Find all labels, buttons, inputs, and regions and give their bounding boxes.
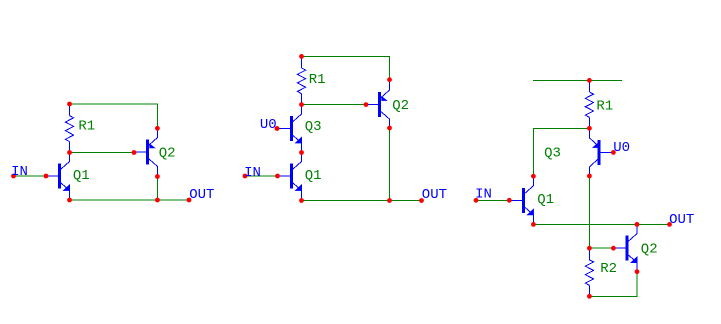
node Q2 base pin (left) xyxy=(132,150,137,155)
svg-text:IN: IN xyxy=(475,187,492,203)
wire Q1 emitter to OUT (right) xyxy=(533,223,669,225)
node power rail center (right) xyxy=(587,78,592,83)
transistor Q2 (right, NPN) xyxy=(614,224,638,271)
wire R1 top to Q2 emitter (middle) xyxy=(302,56,390,79)
svg-text:Q2: Q2 xyxy=(641,241,658,257)
node IN terminal (right) xyxy=(474,198,479,203)
node R1 top (left) xyxy=(67,102,72,107)
transistor Q3 (middle, NPN) xyxy=(278,105,302,153)
node Q2 emitter (left) xyxy=(155,126,160,131)
svg-text:U0: U0 xyxy=(260,117,277,133)
resistor R1 (right) xyxy=(585,80,593,128)
node U0 terminal Q3 base (middle) xyxy=(275,126,280,131)
transistor Q2 (left, PNP) xyxy=(134,128,158,176)
wire Q2 base junction to base pin (right) xyxy=(589,247,613,249)
node rail junction (left) xyxy=(155,198,160,203)
node Q1 base junction (middle) xyxy=(275,174,280,179)
transistor Q3 (right, PNP mirrored) xyxy=(590,128,614,176)
node Q2 collector (middle) xyxy=(387,126,392,131)
svg-text:OUT: OUT xyxy=(189,187,214,203)
svg-text:Q2: Q2 xyxy=(159,146,176,162)
svg-text:Q1: Q1 xyxy=(537,192,554,208)
wire Q2 collector to output rail xyxy=(156,177,158,201)
transistor Q2 (middle, PNP) xyxy=(366,80,390,128)
node IN terminal (middle) xyxy=(243,174,248,179)
wire Q3 collector down to Q2 base junction (right) xyxy=(588,176,590,248)
wire IN to Q1 base junction (middle) xyxy=(245,175,278,177)
node Q1 emitter (left) xyxy=(67,198,72,203)
transistor Q1 (right, NPN) xyxy=(510,176,534,224)
wire R1 bottom / Q3 emitter to Q1 collector (right) xyxy=(533,128,589,176)
node A: R1 bottom / Q1 collector / Q2 base (left) xyxy=(67,150,72,155)
node Q2 base junction / R2 top (right) xyxy=(587,246,592,251)
node Q2 emitter (middle) xyxy=(387,77,392,82)
node OUT terminal (right) xyxy=(667,222,672,227)
svg-text:Q1: Q1 xyxy=(305,168,322,184)
node Q2 base pin (right) xyxy=(611,246,616,251)
wire output rail Q1 emitter to OUT xyxy=(70,199,190,201)
wire output rail Q1 emitter to OUT (middle) xyxy=(302,200,422,202)
wire R2 bottom to Q2 emitter (right) xyxy=(589,272,637,297)
node Q1 base junction (left) xyxy=(44,174,49,179)
wire R1 bottom to Q2 base (middle) xyxy=(302,104,367,106)
svg-text:R1: R1 xyxy=(596,98,613,114)
svg-text:R1: R1 xyxy=(309,72,326,88)
node Q1 emitter (right) xyxy=(531,222,536,227)
svg-text:Q2: Q2 xyxy=(392,98,409,114)
wire R1 top to Q2 emitter xyxy=(70,104,158,128)
transistor Q1 (left, NPN) xyxy=(46,153,70,201)
svg-text:R1: R1 xyxy=(78,119,95,135)
svg-text:Q3: Q3 xyxy=(305,119,322,135)
node R2 bottom (right) xyxy=(587,294,592,299)
node Q3 emitter / Q1 collector (middle) xyxy=(299,150,304,155)
transistor Q1 (middle, NPN) xyxy=(278,153,302,201)
power rail (right) xyxy=(533,79,622,81)
node rail junction (middle) xyxy=(387,198,392,203)
svg-text:OUT: OUT xyxy=(669,212,694,228)
resistor R2 (right) xyxy=(585,248,593,296)
wire node A (Q1 collector/R1 bottom) to Q2 base xyxy=(70,152,135,154)
resistor R1 (middle) xyxy=(297,56,305,104)
svg-text:R2: R2 xyxy=(600,261,617,277)
node Q1 base junction (right) xyxy=(507,198,512,203)
wire IN to Q1 base junction (right) xyxy=(476,199,509,201)
wire IN to Q1 base junction xyxy=(14,175,47,177)
node Q2 collector on OUT wire (right) xyxy=(635,222,640,227)
node R1 bottom / Q3 emitter (right) xyxy=(587,126,592,131)
node Q1 collector (right) xyxy=(531,174,536,179)
svg-text:Q3: Q3 xyxy=(544,145,561,161)
node U0 terminal Q3 base (right) xyxy=(611,150,616,155)
node R1 top (middle) xyxy=(299,54,304,59)
svg-text:Q1: Q1 xyxy=(73,168,90,184)
node Q1 emitter (middle) xyxy=(299,198,304,203)
node Q3 collector (right) xyxy=(587,174,592,179)
svg-text:IN: IN xyxy=(244,165,261,181)
node Q2 collector (left) xyxy=(155,174,160,179)
svg-text:OUT: OUT xyxy=(422,187,447,203)
node Q2 emitter (right) xyxy=(635,269,640,274)
node OUT terminal (left) xyxy=(187,198,192,203)
resistor R1 (left) xyxy=(65,104,73,153)
svg-text:U0: U0 xyxy=(613,140,630,156)
node OUT terminal (middle) xyxy=(419,198,424,203)
svg-text:IN: IN xyxy=(11,164,28,180)
node Q2 base pin (middle) xyxy=(364,102,369,107)
node IN terminal (left) xyxy=(11,174,16,179)
node R1 bottom / Q3 collector (middle) xyxy=(299,102,304,107)
wire Q2 collector down to output rail (middle) xyxy=(389,128,391,201)
